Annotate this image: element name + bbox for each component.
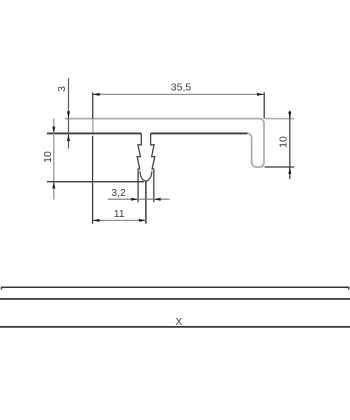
leg left barb outline [137,133,141,202]
flange underside (left segment, extends left as extension line) [47,132,141,134]
profile left edge [92,119,94,133]
dim 3,2 left arrow [131,198,138,201]
svg-text:10: 10 [42,151,54,163]
side view middle edge [0,298,350,300]
dim 10 left upper arrow [52,127,55,134]
dim 10 left line [53,119,55,200]
dim 11 right arrow [139,219,146,222]
dim 10 right line [289,111,291,179]
flange underside (right segment) [151,132,248,134]
side view top edge with end stubs [2,287,349,289]
side view bottom edge [0,326,350,328]
leg center line / dim 11 right extension [145,181,147,224]
svg-text:11: 11 [114,208,125,220]
leg V notch [140,171,152,181]
svg-text:10: 10 [278,136,290,148]
svg-text:3: 3 [56,86,68,92]
dim 3 line [68,78,70,148]
dim 11 line [93,219,146,221]
dim 11 left extension [92,136,94,224]
dim 10 right upper arrow [288,112,291,119]
dim 3,2 right arrow [154,198,161,201]
dim 10 left lower arrow [52,182,55,189]
svg-text:3,2: 3,2 [111,187,126,199]
dim 11 left arrow [93,219,100,222]
dim 35,5 line [93,93,264,95]
leg right barb outline [151,133,155,202]
dim 35,5 right extension [263,92,265,118]
dim 35,5 right arrow [257,93,264,96]
dim 35,5 left extension [92,92,94,118]
dim 3,2 line [108,198,170,200]
hook bottom extension line (for dim 10R) [265,166,295,168]
profile top flange and right hook outline [65,119,264,167]
svg-text:X: X [175,317,182,328]
dim 3 lower arrow [67,134,70,141]
dim 10 right lower arrow [288,167,291,174]
svg-text:35,5: 35,5 [171,81,192,93]
dim 35,5 left arrow [93,93,100,96]
dim 3 upper arrow [67,111,70,118]
top surface extension line (right, for dim 10R) [265,118,294,120]
dim 10 left bottom extension [47,181,144,183]
